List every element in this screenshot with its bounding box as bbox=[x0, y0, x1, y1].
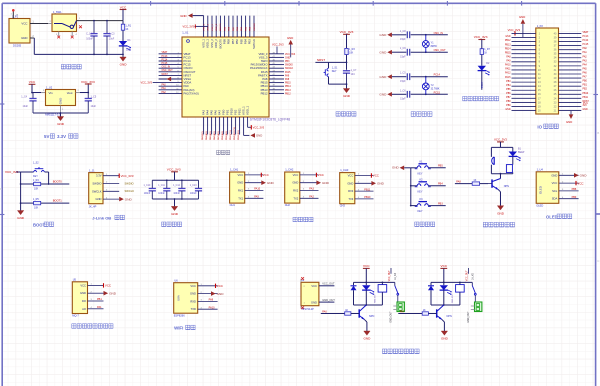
svg-text:PA9: PA9 bbox=[506, 60, 511, 63]
wire WiFi pin 3 bbox=[198, 300, 218, 302]
wire VCC to filter rail bbox=[174, 172, 176, 181]
wire emitter down K5 bbox=[443, 322, 445, 331]
svg-text:PB10: PB10 bbox=[364, 196, 371, 199]
svg-text:BEEP: BEEP bbox=[518, 151, 525, 154]
wire header right pin 32 bbox=[559, 65, 582, 67]
svg-text:15pF: 15pF bbox=[400, 98, 406, 101]
svg-text:PC14: PC14 bbox=[583, 40, 589, 42]
wire rail to coil K5 bbox=[459, 282, 461, 284]
wire K2 to net bbox=[429, 185, 446, 187]
svg-text:KEY: KEY bbox=[418, 210, 423, 213]
svg-text:SWDIO: SWDIO bbox=[125, 181, 134, 185]
svg-text:1_C8: 1_C8 bbox=[400, 30, 406, 33]
pin U2.Vout bbox=[76, 92, 81, 94]
svg-text:PB4: PB4 bbox=[438, 183, 443, 186]
svg-text:15pF: 15pF bbox=[400, 55, 406, 58]
wire WiFi pin 2 bbox=[198, 293, 218, 295]
svg-text:PA0: PA0 bbox=[162, 84, 167, 87]
svg-text:U6: U6 bbox=[174, 278, 178, 282]
wire CO pin 3 bbox=[88, 300, 104, 302]
svg-text:1_C7: 1_C7 bbox=[351, 69, 357, 72]
power VCC relay K4 bbox=[363, 264, 370, 268]
wire vcc to S2 bbox=[16, 171, 21, 173]
resistor R1 bbox=[121, 24, 124, 30]
capacitor 1_C6 bbox=[407, 91, 409, 98]
svg-text:J-Link OB: J-Link OB bbox=[92, 216, 111, 221]
wire MCU top pin 7 bbox=[228, 16, 230, 37]
svg-text:KEY: KEY bbox=[33, 175, 38, 178]
svg-text:VCC: VCC bbox=[21, 22, 27, 26]
label chuankou-dianlu (serial circuit) bbox=[293, 217, 313, 221]
svg-text:SWDIO: SWDIO bbox=[92, 182, 101, 186]
wire MCU left pin PC15 bbox=[159, 64, 182, 66]
svg-text:PB3: PB3 bbox=[438, 202, 443, 205]
svg-text:TX1: TX1 bbox=[238, 196, 243, 200]
svg-text:PA7: PA7 bbox=[583, 76, 588, 79]
net VCC_3V3 jlink bbox=[119, 174, 134, 178]
wire header right pin 31 bbox=[559, 69, 582, 71]
power GND arrow CO bbox=[104, 291, 117, 296]
wire MCU top pin 8 bbox=[232, 16, 234, 37]
svg-text:LED: LED bbox=[126, 49, 131, 52]
wire header right pin 21 bbox=[559, 110, 582, 112]
wire header right pin 37 bbox=[559, 45, 582, 47]
svg-text:VDD_1: VDD_1 bbox=[208, 23, 210, 31]
svg-text:GND_OUT: GND_OUT bbox=[468, 311, 470, 323]
svg-text:1_R3: 1_R3 bbox=[349, 48, 355, 51]
connector serial CH2 bbox=[285, 172, 300, 203]
wire MCU top pin 4 bbox=[215, 16, 217, 37]
capacitor 1_C9 bbox=[407, 49, 409, 56]
svg-text:VCC: VCC bbox=[373, 174, 379, 178]
svg-text:PB13: PB13 bbox=[505, 44, 511, 46]
svg-text:SRD-05V: SRD-05V bbox=[375, 294, 377, 303]
svg-text:1_P2: 1_P2 bbox=[537, 24, 544, 28]
wire header pin21 down bbox=[570, 111, 572, 115]
wire PA8 to R8 bbox=[455, 183, 472, 185]
net VCC serial CH1 bbox=[261, 173, 269, 177]
net VCC_3V3 MCU bottom bbox=[251, 125, 264, 129]
wire crystal row 2 left bbox=[392, 51, 406, 53]
wire contact pole K4 bbox=[394, 282, 396, 285]
svg-text:GND: GND bbox=[580, 174, 588, 178]
svg-text:TXD: TXD bbox=[191, 307, 196, 311]
svg-text:3.3V: 3.3V bbox=[57, 134, 66, 139]
svg-text:1_U1: 1_U1 bbox=[182, 31, 189, 35]
svg-text:PB13: PB13 bbox=[285, 90, 291, 92]
svg-text:GND: GND bbox=[343, 94, 351, 98]
wire contact pole K5 bbox=[471, 282, 473, 285]
svg-text:AO: AO bbox=[82, 307, 86, 311]
wire filter to ground bbox=[174, 199, 176, 206]
wire bus to K3 bbox=[411, 205, 417, 207]
label OLED display bbox=[546, 214, 572, 219]
wire WiFi pin 1 bbox=[198, 285, 218, 287]
svg-text:GND: GND bbox=[190, 292, 196, 296]
svg-text:PA6: PA6 bbox=[583, 72, 588, 75]
wire S1 to rail bbox=[328, 77, 330, 84]
svg-text:BOOT: BOOT bbox=[33, 222, 46, 227]
svg-text:PB3: PB3 bbox=[506, 81, 511, 83]
wire header left pin 10 bbox=[512, 69, 536, 71]
wire base net K5 bbox=[398, 313, 422, 315]
svg-text:GND: GND bbox=[551, 173, 557, 177]
svg-text:VCC: VCC bbox=[363, 264, 370, 268]
wire MCU bottom pin VSS_1 bbox=[243, 117, 245, 135]
connector P1 power input bbox=[9, 19, 30, 44]
svg-text:NRST: NRST bbox=[162, 74, 169, 76]
wire regulator bottom rail bbox=[33, 112, 88, 114]
svg-text:1_C5: 1_C5 bbox=[91, 96, 97, 99]
svg-text:PA4: PA4 bbox=[583, 63, 588, 66]
svg-text:VCC_3V3: VCC_3V3 bbox=[167, 168, 181, 172]
wire contact to terminal K5 bbox=[474, 295, 476, 302]
module U5 CO sensor MQ-7 bbox=[72, 282, 87, 314]
ground regulator bbox=[57, 117, 65, 127]
svg-text:VCC: VCC bbox=[263, 173, 269, 177]
svg-text:VCC: VCC bbox=[190, 284, 196, 288]
power VCC main rail bbox=[120, 5, 127, 9]
svg-text:1_C9: 1_C9 bbox=[400, 47, 406, 50]
wire R to base K4 bbox=[351, 313, 359, 315]
wire VCC down bbox=[122, 10, 124, 21]
svg-text:100nF: 100nF bbox=[190, 193, 197, 195]
svg-text:SCL: SCL bbox=[552, 189, 558, 193]
svg-text:SWCLK: SWCLK bbox=[92, 189, 102, 193]
connector J1 JLink bbox=[89, 173, 103, 204]
wire header left pin 3 bbox=[512, 41, 536, 43]
wire OLED pin 1 bbox=[559, 174, 579, 176]
svg-text:VCC_3V3: VCC_3V3 bbox=[81, 80, 95, 84]
svg-text:PA3: PA3 bbox=[309, 188, 314, 191]
wire R to base K5 bbox=[428, 313, 436, 315]
wire reset bottom bbox=[329, 83, 347, 85]
svg-text:KEY: KEY bbox=[418, 190, 423, 193]
pin J2 top stub bbox=[300, 279, 302, 283]
svg-text:PA2: PA2 bbox=[583, 55, 588, 58]
diode flyback K4 bbox=[351, 286, 357, 290]
svg-text:RX2: RX2 bbox=[293, 189, 299, 193]
label fuwei-dianlu (reset circuit) bbox=[336, 112, 356, 116]
svg-text:GND: GND bbox=[441, 337, 449, 341]
svg-text:GND: GND bbox=[377, 182, 385, 186]
svg-text:PC13: PC13 bbox=[583, 36, 589, 38]
svg-text:CH1: CH1 bbox=[230, 203, 236, 207]
svg-text:PA12: PA12 bbox=[505, 72, 511, 75]
capacitor 1_C8 bbox=[407, 31, 409, 38]
svg-text:VCC: VCC bbox=[120, 5, 127, 9]
wire emitter to ground bbox=[500, 192, 502, 206]
svg-text:15pF: 15pF bbox=[400, 38, 406, 41]
svg-text:RX3: RX3 bbox=[348, 189, 354, 193]
wire MCU left pin VDDA bbox=[153, 82, 182, 84]
svg-text:PB14: PB14 bbox=[285, 86, 291, 88]
power GND arrow crystal row 3 bbox=[379, 74, 391, 79]
wire MCU right pin PA9/TX bbox=[269, 74, 284, 76]
svg-text:OLED: OLED bbox=[546, 214, 558, 219]
wire relay top rail K5 bbox=[431, 281, 472, 283]
svg-text:PB15: PB15 bbox=[285, 83, 291, 85]
crystal Y1 bbox=[422, 35, 429, 52]
svg-text:10uF: 10uF bbox=[109, 38, 115, 41]
wire box to rail bbox=[512, 173, 514, 174]
wire serial CH2 pin 2 bbox=[300, 182, 319, 184]
wire serial CH2 pin 1 bbox=[300, 174, 319, 176]
wire crystal row 3 right bbox=[411, 76, 448, 78]
svg-text:GND: GND bbox=[267, 181, 275, 185]
wire serial CH3 pin 4 bbox=[355, 198, 374, 200]
svg-text:GND: GND bbox=[285, 57, 290, 59]
power GND arrow right bottom bbox=[244, 133, 263, 138]
svg-text:GND: GND bbox=[120, 63, 128, 67]
label dianyuan-dianlu (power circuit) bbox=[61, 65, 81, 69]
connector serial CH1 bbox=[230, 172, 245, 203]
wire P1.GND stub bbox=[30, 37, 34, 39]
no-ERC marker bbox=[301, 306, 304, 309]
svg-text:MQ-7: MQ-7 bbox=[72, 314, 79, 318]
wire P1 pin1 up stub bbox=[12, 11, 14, 19]
label anjian-dianlu (key circuit) bbox=[415, 222, 435, 226]
wire LED to bottom K5 bbox=[443, 290, 445, 305]
wire header right pin 38 bbox=[559, 41, 582, 43]
svg-text:PB1(AO): PB1(AO) bbox=[225, 131, 228, 140]
wire header right pin 33 bbox=[559, 61, 582, 63]
power GND arrow WiFi bbox=[211, 291, 224, 296]
LED relay K5 bbox=[440, 285, 452, 295]
svg-text:1_C11: 1_C11 bbox=[158, 185, 165, 187]
svg-text:PC15: PC15 bbox=[162, 63, 168, 65]
wire relay top rail K4 bbox=[354, 281, 395, 283]
wire buzzer to rail bbox=[490, 165, 492, 174]
power GND arrow crystal row 2 bbox=[379, 50, 391, 55]
svg-text:JK_4P: JK_4P bbox=[89, 205, 97, 209]
MCU U1 STM32F103C8T6 body bbox=[182, 37, 269, 117]
svg-text:VCC: VCC bbox=[80, 283, 86, 287]
svg-text:8MHz: 8MHz bbox=[431, 45, 438, 48]
net VCC WiFi bbox=[216, 284, 224, 288]
wire MCU bottom pin 3 bbox=[211, 117, 213, 135]
svg-text:PA10: PA10 bbox=[254, 188, 261, 191]
wire serial CH1 pin 3 bbox=[245, 190, 264, 192]
label BOOT circuit bbox=[33, 222, 54, 227]
pin SW1.1 bbox=[48, 23, 52, 25]
wire MCU left pin OSCOUT bbox=[159, 71, 182, 73]
wire CO pin 4 bbox=[88, 308, 104, 310]
svg-text:PC15: PC15 bbox=[583, 44, 589, 46]
svg-text:1_C4: 1_C4 bbox=[21, 96, 27, 99]
regulator U2 AMS1117 bbox=[46, 90, 76, 106]
svg-text:VCC_3V3: VCC_3V3 bbox=[121, 174, 134, 178]
wire MCU left pin PC13 bbox=[159, 56, 182, 58]
svg-text:1_CH2: 1_CH2 bbox=[285, 168, 294, 172]
resistor R3 bbox=[345, 48, 348, 54]
wire Vout rail bbox=[80, 92, 88, 94]
wire MCU bottom pin 7 bbox=[227, 117, 229, 135]
wire MCU right pin PA8 bbox=[269, 78, 284, 80]
svg-text:VCC: VCC bbox=[105, 284, 111, 288]
svg-text:PA2: PA2 bbox=[309, 196, 314, 199]
label sound-light alarm circuit bbox=[483, 222, 514, 227]
wire relay bottom rail K4 bbox=[354, 304, 383, 306]
svg-text:PB12: PB12 bbox=[285, 93, 291, 95]
svg-text:GND: GND bbox=[237, 181, 243, 185]
capacitor C4 bbox=[29, 93, 36, 114]
wire MCU left pin PC14 bbox=[159, 60, 182, 62]
wire VCC_3V3 down bbox=[87, 84, 89, 93]
wire MCU left pin VSSA bbox=[159, 78, 182, 80]
wire MCU right pin PB12 bbox=[269, 92, 284, 94]
wire header right pin 25 bbox=[559, 93, 582, 95]
wire R3 to C7 bbox=[346, 55, 348, 70]
svg-text:PB1: PB1 bbox=[97, 298, 102, 301]
wire header right pin 30 bbox=[559, 73, 582, 75]
svg-text:1_U4: 1_U4 bbox=[537, 167, 544, 171]
wire MCU bottom pin 4 bbox=[215, 117, 217, 135]
wire MCU top pin 13 bbox=[253, 16, 255, 37]
wire crystal row 1 left bbox=[392, 34, 406, 36]
wire MCU right pin PB13 bbox=[269, 89, 284, 91]
wire header left pin 13 bbox=[512, 81, 536, 83]
net VCC OLED bbox=[576, 181, 584, 185]
svg-text:OSC_IN: OSC_IN bbox=[434, 32, 444, 35]
svg-text:PB10(TX): PB10(TX) bbox=[230, 130, 232, 140]
wire MCU bottom pin 5 bbox=[219, 117, 221, 135]
capacitor C5 bbox=[85, 93, 92, 114]
svg-text:RX1: RX1 bbox=[238, 189, 244, 193]
svg-text:TX3: TX3 bbox=[348, 197, 353, 201]
wire VCC to Vin rail bbox=[31, 84, 33, 92]
svg-text:PA3(RX): PA3(RX) bbox=[201, 131, 204, 140]
wire OLED pin 3 bbox=[559, 190, 579, 192]
svg-text:PA1: PA1 bbox=[583, 51, 588, 54]
wire header right pin 39 bbox=[559, 36, 582, 38]
wire J2 GND_OUT bbox=[319, 301, 335, 303]
svg-text:TX2: TX2 bbox=[293, 196, 298, 200]
wire serial CH1 pin 1 bbox=[245, 174, 264, 176]
wire VCC to R3 bbox=[346, 34, 348, 48]
svg-text:SWCLK: SWCLK bbox=[252, 39, 256, 49]
wire MCU top pin 9 bbox=[236, 16, 238, 37]
wire to U2 Vin bbox=[32, 92, 41, 94]
wire header left pin 6 bbox=[512, 53, 536, 55]
power GND arrow VSSA bbox=[167, 77, 172, 82]
wire MCU right pin PB14 bbox=[269, 85, 284, 87]
wire LED to bottom K4 bbox=[365, 290, 367, 305]
no-ERC marker bbox=[79, 25, 82, 28]
svg-text:ESP8266: ESP8266 bbox=[174, 313, 186, 317]
LED D1 bbox=[119, 41, 131, 51]
wire serial CH2 pin 4 bbox=[300, 197, 319, 199]
LED D2 program indicator bbox=[478, 66, 490, 76]
svg-text:32.768K: 32.768K bbox=[431, 87, 440, 90]
wire MCU left pin PA2(TX/AO) bbox=[159, 92, 182, 94]
svg-text:PA1: PA1 bbox=[97, 306, 102, 309]
svg-text:OLED: OLED bbox=[539, 186, 543, 194]
svg-text:PB9: PB9 bbox=[506, 105, 511, 107]
svg-text:1K: 1K bbox=[423, 309, 426, 312]
wire MCU top pin 12 bbox=[249, 16, 251, 37]
wire header right pin 40 bbox=[559, 32, 582, 34]
wire MCU bottom pin 1 bbox=[203, 117, 205, 135]
svg-text:1_C5: 1_C5 bbox=[400, 72, 406, 75]
power GND arrow OLED bbox=[574, 173, 587, 178]
wire serial CH3 pin 3 bbox=[355, 190, 374, 192]
svg-text:GND_OUT: GND_OUT bbox=[322, 298, 335, 302]
svg-text:GND: GND bbox=[21, 36, 27, 40]
net VCC CO bbox=[104, 283, 112, 287]
wire contact to terminal K4 bbox=[397, 295, 399, 302]
svg-text:GND: GND bbox=[287, 36, 293, 40]
svg-text:PB1: PB1 bbox=[583, 85, 588, 87]
capacitor C13 bbox=[195, 180, 202, 199]
power GND arrow crystal row 1 bbox=[379, 33, 391, 38]
pin J2 bottom stub bbox=[300, 306, 302, 309]
wire S2 down to BOOT0 row bbox=[48, 172, 50, 184]
wire header left pin 5 bbox=[512, 49, 536, 51]
wire JLink pin 3 bbox=[103, 190, 119, 192]
ground relay K4 bbox=[363, 331, 371, 341]
wire bus to K1 bbox=[411, 167, 417, 169]
module U6 WiFi ESP8266 bbox=[174, 283, 198, 314]
buzzer body box bbox=[506, 165, 512, 173]
wire MCU bottom pin 9 bbox=[235, 117, 237, 135]
wire header left pin 7 bbox=[512, 57, 536, 59]
wire OLED pin 4 bbox=[559, 198, 579, 200]
wire serial CH2 pin 3 bbox=[300, 190, 319, 192]
terminal block green K5 bbox=[471, 302, 482, 312]
svg-text:OSC_IN: OSC_IN bbox=[162, 67, 171, 69]
svg-text:VSS_2: VSS_2 bbox=[212, 23, 214, 31]
svg-text:PA10: PA10 bbox=[505, 64, 511, 67]
svg-text:VCC: VCC bbox=[577, 181, 583, 185]
svg-text:PA9: PA9 bbox=[209, 299, 214, 302]
resistor R4 bbox=[34, 182, 41, 185]
svg-text:1K: 1K bbox=[345, 309, 348, 312]
wire MCU top pin 2 bbox=[207, 16, 209, 37]
svg-text:VSS_1: VSS_1 bbox=[203, 23, 205, 31]
svg-text:PB14: PB14 bbox=[505, 48, 511, 50]
svg-text:1A_K4: 1A_K4 bbox=[394, 272, 397, 280]
LED D3 alarm bbox=[509, 152, 521, 162]
svg-text:VCC: VCC bbox=[348, 174, 354, 178]
svg-text:10K: 10K bbox=[34, 207, 39, 210]
svg-text:SWCLK: SWCLK bbox=[125, 189, 135, 193]
svg-text:GND: GND bbox=[497, 211, 505, 215]
wire MCU top pin 6 bbox=[224, 16, 226, 37]
svg-text:VCC_OUT: VCC_OUT bbox=[322, 282, 335, 286]
wire header right pin 26 bbox=[559, 89, 582, 91]
crystal Y2 bbox=[422, 77, 429, 95]
svg-text:PB2(BOOT1): PB2(BOOT1) bbox=[234, 127, 236, 140]
svg-text:VCC_3V3: VCC_3V3 bbox=[340, 30, 354, 34]
wire header right pin 35 bbox=[559, 53, 582, 55]
svg-text:B: B bbox=[0, 187, 2, 191]
svg-text:PA15: PA15 bbox=[505, 76, 511, 79]
svg-text:1_C13: 1_C13 bbox=[190, 185, 197, 187]
svg-text:VCC: VCC bbox=[29, 80, 36, 84]
svg-text:PA8: PA8 bbox=[506, 55, 511, 58]
svg-text:PA7: PA7 bbox=[400, 310, 405, 313]
ground power circuit bbox=[120, 57, 128, 67]
wire to R5 bbox=[21, 202, 34, 204]
wire VCC down alarm bbox=[500, 142, 502, 148]
svg-text:PA0: PA0 bbox=[583, 47, 588, 50]
svg-text:VCC_OUT: VCC_OUT bbox=[467, 270, 469, 282]
svg-text:WiFi: WiFi bbox=[174, 326, 183, 331]
svg-text:OLED: OLED bbox=[536, 204, 543, 208]
push button S2 boot key bbox=[34, 167, 45, 172]
label IO expansion port bbox=[537, 124, 558, 129]
